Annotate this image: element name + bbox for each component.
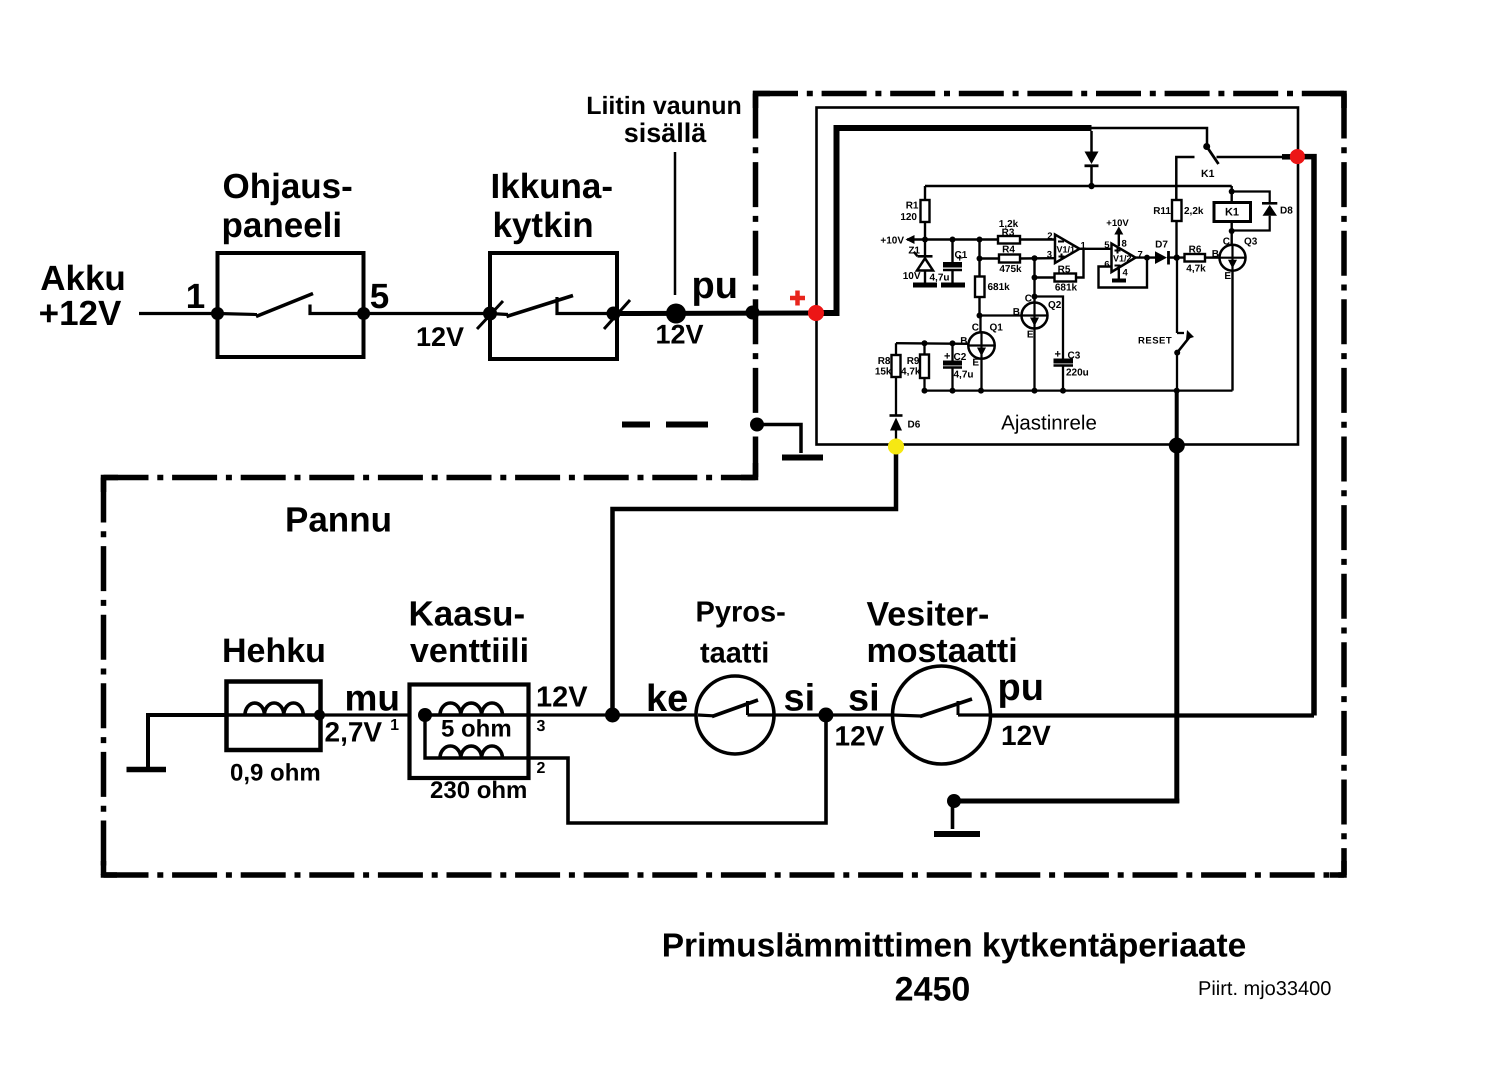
svg-text:V1/1: V1/1: [1057, 245, 1076, 255]
+10V rail: [907, 238, 998, 240]
svg-text:R3: R3: [1002, 228, 1015, 239]
pin4 ground: [1118, 266, 1120, 279]
wire from timer (yellow) down to valve node: [613, 447, 897, 716]
svg-text:+10V: +10V: [1106, 218, 1129, 229]
switch S1 inside control panel: [218, 314, 258, 315]
capacitor C3 220u: [1054, 359, 1074, 364]
svg-text:Kaasu-: Kaasu-: [409, 595, 526, 634]
svg-text:taatti: taatti: [700, 638, 769, 670]
svg-text:Vesiter-: Vesiter-: [867, 596, 990, 634]
svg-text:venttiili: venttiili: [410, 632, 529, 670]
svg-text:K1: K1: [1201, 168, 1215, 180]
wire si node to thermostat: [826, 713, 894, 716]
yellow node: [888, 439, 904, 455]
svg-text:Hehku: Hehku: [222, 632, 326, 670]
svg-text:Piirt. mjo33400: Piirt. mjo33400: [1198, 978, 1331, 1000]
svg-text:Pannu: Pannu: [285, 501, 392, 540]
wire to chassis ground: [757, 425, 801, 454]
svg-text:Q1: Q1: [990, 323, 1004, 334]
svg-text:pu: pu: [692, 265, 738, 307]
svg-text:K1: K1: [1225, 207, 1239, 219]
wire node to Pyrostaatti: [613, 713, 698, 716]
svg-text:Ohjaus-: Ohjaus-: [223, 167, 353, 206]
node pu out red (over wires): [1290, 149, 1305, 164]
svg-text:RESET: RESET: [1138, 336, 1172, 347]
switch K1 right contact wire: [1217, 156, 1285, 159]
node on module edge: [1169, 438, 1185, 454]
svg-text:4,7k: 4,7k: [1186, 264, 1206, 275]
switch K1 blade: [1207, 147, 1219, 165]
capacitor C1 4,7u: [951, 240, 953, 263]
pin8 +10V arrow: [1118, 231, 1120, 246]
top line R8 R9 C2 Q1: [896, 342, 969, 345]
Ajastinrele box: [817, 108, 1299, 445]
wire window switch to pu node (thick): [614, 311, 817, 317]
resistor R6 4,7k: [1185, 254, 1206, 262]
svg-text:4: 4: [1123, 267, 1129, 278]
svg-text:Ajastinrele: Ajastinrele: [1001, 412, 1097, 435]
svg-text:+10V: +10V: [880, 236, 904, 247]
wire to K1 switch: [1092, 128, 1208, 144]
svg-text:5: 5: [370, 277, 389, 316]
svg-text:+: +: [944, 351, 950, 363]
resistor R4 475k: [999, 255, 1020, 263]
Q2 emitter to rail: [1033, 329, 1035, 391]
node on 12V rail: [1088, 183, 1094, 189]
svg-text:5 ohm: 5 ohm: [441, 716, 512, 743]
svg-text:pu: pu: [998, 667, 1044, 709]
svg-text:kytkin: kytkin: [493, 206, 594, 245]
svg-text:Akku: Akku: [40, 259, 126, 298]
svg-text:C: C: [1223, 236, 1230, 247]
svg-text:3: 3: [1047, 250, 1052, 261]
svg-text:mu: mu: [345, 678, 401, 719]
inductor 230 ohm: [425, 715, 529, 758]
node 5: [357, 307, 370, 320]
diode D8 across coil: [1232, 192, 1270, 204]
svg-text:220u: 220u: [1066, 368, 1089, 379]
svg-text:2: 2: [1047, 231, 1052, 242]
inductor 5 ohm: [425, 713, 529, 716]
node C1: [950, 237, 956, 243]
op-amp V1/2: [1112, 244, 1136, 273]
ground bar Z1: [913, 283, 937, 288]
svg-text:1: 1: [186, 277, 205, 316]
node base line: [977, 313, 983, 319]
svg-text:10V: 10V: [903, 271, 921, 282]
svg-text:681k: 681k: [988, 282, 1011, 293]
ground node right: [947, 794, 961, 808]
svg-text:paneeli: paneeli: [222, 206, 343, 245]
svg-text:475k: 475k: [999, 264, 1022, 275]
leader line: [674, 152, 677, 295]
node at window switch left: [483, 307, 497, 321]
pin6 feedback loop: [1099, 258, 1148, 288]
svg-text:Z1: Z1: [908, 246, 920, 257]
node mu: [314, 710, 325, 721]
+10V arrow: [906, 235, 915, 244]
node on border (minus): [750, 418, 764, 432]
water thermostat circle: [893, 666, 991, 764]
node at window switch right: [607, 307, 621, 321]
thick +12V feed wire: [816, 128, 1092, 313]
resistor 681k vertical: [975, 277, 985, 298]
Q2 base wire: [980, 314, 1022, 316]
Pannu box top: [104, 475, 756, 481]
control panel box Ohjauspaneeli: [218, 253, 364, 357]
svg-text:C: C: [1025, 293, 1032, 304]
svg-text:681k: 681k: [1055, 282, 1078, 293]
svg-text:2450: 2450: [895, 971, 971, 1009]
ground left of Hehku: [148, 715, 227, 768]
resistor R9 4,7k: [923, 343, 925, 354]
svg-text:4,7u: 4,7u: [954, 370, 974, 381]
node 681k top: [977, 237, 983, 243]
node on dash border: [746, 306, 760, 320]
svg-text:si: si: [848, 678, 880, 720]
border top (timer enclosure): [753, 91, 1344, 97]
op-amp V1/1: [1055, 235, 1080, 264]
node yellow (over wires): [888, 439, 904, 455]
svg-text:2: 2: [537, 760, 546, 777]
Q3 emitter to rail: [1231, 271, 1233, 391]
node 12V valve: [605, 708, 620, 723]
12V rail inside module: [925, 185, 1232, 187]
svg-text:4,7u: 4,7u: [929, 273, 949, 284]
node pin1 inside valve: [418, 708, 432, 722]
svg-text:si: si: [784, 678, 816, 720]
svg-text:Q2: Q2: [1048, 300, 1062, 311]
RESET switch line: [1176, 258, 1178, 333]
feedback via R5: [1076, 249, 1084, 278]
svg-text:E: E: [1224, 271, 1231, 282]
svg-text:mostaatti: mostaatti: [867, 632, 1018, 670]
svg-text:E: E: [972, 358, 979, 369]
svg-text:B: B: [1212, 249, 1219, 260]
svg-text:C2: C2: [954, 352, 967, 363]
wire pin2 to si node: [529, 715, 827, 823]
border corner patches: [756, 94, 771, 109]
border left upper: [753, 94, 759, 478]
svg-text:D8: D8: [1280, 206, 1293, 217]
svg-text:D6: D6: [908, 420, 921, 431]
svg-text:12V: 12V: [655, 320, 703, 350]
window switch box Ikkunakytkin: [490, 253, 617, 359]
capacitor C2 4,7u: [951, 343, 953, 360]
node pu connector: [666, 304, 686, 324]
output V1/2: [1136, 256, 1156, 258]
border bottom: [104, 872, 1345, 878]
svg-text:+12V: +12V: [39, 294, 122, 333]
resistor R11 2,2k: [1172, 200, 1182, 221]
svg-text:Q3: Q3: [1244, 236, 1258, 247]
svg-text:+: +: [1055, 349, 1061, 361]
resistor R3 1,2k: [998, 236, 1020, 244]
svg-text:120: 120: [900, 212, 917, 223]
wire Hehku to Kaasuventtiili: [320, 713, 410, 716]
vertical pin3 node line: [1033, 258, 1035, 302]
wire thermostat pu to riser: [990, 713, 1314, 717]
node + red (over wires): [808, 305, 824, 321]
transistor Q3: [1220, 245, 1246, 271]
thick pu wire down right side: [1297, 157, 1314, 716]
svg-text:6: 6: [1104, 260, 1109, 271]
svg-text:R11: R11: [1153, 206, 1171, 217]
ground bar: [127, 767, 167, 773]
svg-text:sisällä: sisällä: [624, 118, 708, 148]
resistor R8 15k: [895, 343, 897, 355]
svg-text:C3: C3: [1068, 351, 1081, 362]
svg-text:R6: R6: [1189, 245, 1202, 256]
svg-text:R1: R1: [906, 201, 919, 212]
glow plug box Hehku: [227, 682, 321, 751]
svg-text:5: 5: [1104, 240, 1110, 251]
svg-text:C: C: [972, 323, 979, 334]
red node +: [808, 305, 824, 321]
connector slash right: [604, 300, 630, 329]
svg-text:12V: 12V: [416, 322, 464, 352]
border right: [1341, 94, 1347, 876]
svg-text:B: B: [1013, 307, 1020, 318]
svg-text:12V: 12V: [1001, 720, 1051, 751]
transistor Q2: [1022, 303, 1048, 329]
thermostat switch: [893, 715, 921, 716]
output V1/1 to V1/2: [1080, 248, 1112, 250]
switch K1 left contact to R11: [1176, 157, 1194, 200]
gas valve box Kaasuventtiili: [410, 685, 529, 779]
wire pyrostat to si node: [772, 713, 826, 716]
Q1 emitter to rail: [980, 359, 982, 391]
wire battery to control panel: [139, 312, 218, 315]
svg-text:0,9 ohm: 0,9 ohm: [230, 760, 321, 787]
pyrostat switch: [698, 713, 713, 717]
svg-text:ke: ke: [646, 678, 688, 720]
svg-text:Liitin vaunun: Liitin vaunun: [586, 92, 742, 120]
node R1/Z1: [922, 237, 928, 243]
ground bar right: [934, 831, 980, 837]
Q1 collector to base node: [979, 316, 981, 333]
svg-text:D7: D7: [1155, 240, 1168, 251]
svg-text:B: B: [960, 336, 967, 347]
red plus terminal: [790, 296, 805, 301]
thick drop to ground node: [1175, 391, 1179, 446]
stray dashes on minus line: [622, 422, 650, 428]
red node pu out: [1290, 149, 1305, 164]
thick ground rail from timer: [951, 799, 1179, 804]
svg-text:12V: 12V: [536, 682, 588, 714]
svg-text:R5: R5: [1058, 264, 1071, 275]
svg-text:V1/2: V1/2: [1113, 254, 1132, 264]
node 1: [211, 307, 224, 320]
svg-text:+: +: [957, 253, 963, 265]
relay coil K1: [1230, 186, 1232, 203]
zener Z1 10V: [924, 240, 926, 257]
pyrostat circle: [696, 676, 774, 754]
wire pin3 to node: [529, 713, 613, 716]
svg-text:E: E: [1027, 330, 1034, 341]
node si 12V: [818, 708, 833, 723]
svg-text:8: 8: [1122, 239, 1127, 250]
svg-text:2,7V: 2,7V: [325, 717, 383, 748]
svg-text:230 ohm: 230 ohm: [430, 777, 527, 804]
inductor L1 0,9 ohm: [227, 713, 320, 716]
bottom rail of module: [925, 389, 1233, 391]
svg-text:1: 1: [390, 717, 399, 734]
connector slash left: [477, 301, 503, 329]
resistor R1 120: [924, 186, 926, 200]
svg-text:Pyros-: Pyros-: [696, 597, 786, 629]
svg-text:4,7k: 4,7k: [901, 366, 921, 377]
Pannu box left: [101, 478, 107, 876]
diode D6: [890, 414, 903, 417]
branch to R4: [978, 240, 980, 277]
ground bar C1: [941, 283, 965, 288]
svg-text:15k: 15k: [875, 366, 892, 377]
svg-text:3: 3: [537, 718, 546, 735]
ground stub: [951, 801, 955, 829]
svg-text:R4: R4: [1002, 245, 1015, 256]
svg-text:Primuslämmittimen kytkentäperi: Primuslämmittimen kytkentäperiaate: [662, 928, 1247, 965]
svg-text:12V: 12V: [835, 721, 885, 752]
wire panel to window switch, 12V: [364, 312, 490, 315]
ground bar (minus): [782, 455, 823, 461]
svg-text:2,2k: 2,2k: [1184, 206, 1204, 217]
C3 branch wire: [1035, 297, 1064, 359]
diode at top feed: [1090, 131, 1093, 152]
switch S2 inside window switch: [490, 314, 508, 315]
svg-text:Ikkuna-: Ikkuna-: [491, 167, 614, 206]
switch K1 pivot: [1203, 143, 1210, 150]
diode D7: [1155, 251, 1167, 264]
transistor Q1: [968, 332, 994, 358]
